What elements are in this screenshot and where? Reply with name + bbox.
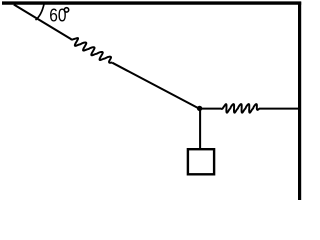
svg-text:60: 60 — [49, 5, 66, 26]
ceiling — [2, 1, 301, 4]
wire horizontal left — [199, 108, 222, 110]
node junction — [197, 106, 202, 111]
spring K1 diagonal — [71, 38, 112, 63]
block mass — [188, 149, 214, 174]
wire horizontal right — [259, 108, 299, 110]
angle arc — [36, 4, 45, 20]
degree ring — [64, 8, 68, 12]
wire vertical hanger — [199, 109, 201, 150]
spring K2 horizontal — [221, 104, 259, 113]
right wall — [298, 2, 301, 200]
wire string lower segment — [112, 63, 199, 109]
wire string upper segment — [14, 5, 72, 40]
